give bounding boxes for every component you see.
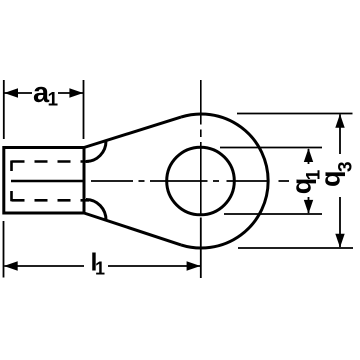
d3 extension line top (237, 113, 353, 115)
a1 arrow left (4, 88, 18, 97)
flare arc top (86, 141, 106, 162)
a1 arrow right (69, 88, 83, 97)
l1 dimension line (5, 265, 201, 267)
l1 right extension line (below ring) (200, 218, 202, 279)
barrel seam centerline (solid segment) (11, 180, 84, 183)
flare arc bottom (86, 200, 106, 221)
ring outer arc (181, 114, 268, 248)
l1 extension line left (3, 221, 5, 278)
d1 arrow top (304, 148, 313, 162)
d1 arrow bottom (304, 200, 313, 214)
a1 extension line left (3, 80, 5, 139)
horizontal centerline (dash-dot) (91, 180, 289, 182)
d1 extension line bottom (224, 213, 322, 215)
hidden hole line bottom (dashed) (12, 199, 90, 202)
l1 arrow left (4, 261, 18, 270)
svg-text:3: 3 (336, 161, 357, 172)
hidden hole line top (dashed) (12, 160, 90, 163)
svg-text:1: 1 (48, 90, 59, 111)
d3 extension line bottom (238, 247, 353, 249)
l1 arrow right (187, 261, 201, 270)
taper line top (84, 117, 181, 147)
barrel (crimp sleeve) outline (4, 148, 84, 214)
taper line bottom (84, 213, 181, 245)
vertical centerline (dash-dot) (200, 80, 202, 215)
svg-text:1: 1 (95, 259, 105, 279)
d3 arrow bottom (335, 234, 344, 248)
d1 extension line top (220, 147, 322, 149)
d3 dimension line (339, 115, 341, 248)
hidden hole line left (dashed) (10, 161, 13, 202)
stud hole (inner circle) (167, 147, 235, 215)
d3 arrow top (335, 114, 344, 128)
d1 dimension line (308, 149, 310, 213)
a1 extension line right (83, 80, 85, 139)
a1 dimension line (5, 92, 84, 94)
